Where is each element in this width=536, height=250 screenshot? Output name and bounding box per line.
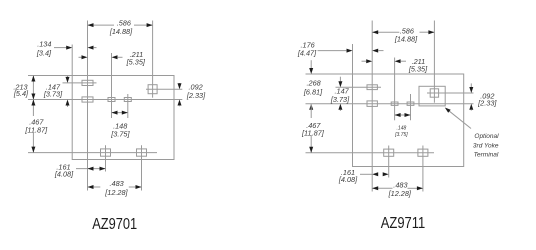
optional 3rd yoke terminal box (419, 86, 445, 106)
pads A-B vertical centerline / extension line (371, 21, 373, 192)
body left edge extension line (right) (352, 44, 354, 74)
svg-text:[5.4]: [5.4] (13, 89, 29, 98)
pad C vertical centerline (394, 58, 396, 121)
pad G vertical centerline (422, 146, 424, 192)
dimension .586 [14.88] (right) (372, 26, 434, 43)
dimension .148 [3.75] (right, small) (394, 113, 410, 138)
svg-text:.134: .134 (37, 39, 51, 48)
pad row B horizontal centerline (306, 103, 474, 105)
dimension .211 [5.35] (right) (362, 57, 429, 74)
svg-text:[2.33]: [2.33] (477, 99, 497, 108)
svg-text:[4.47]: [4.47] (297, 49, 317, 58)
pad G (418, 149, 428, 156)
pad 4 (124, 98, 131, 102)
svg-text:[5.35]: [5.35] (126, 58, 146, 67)
pad 5 horizontal centerline (146, 88, 182, 90)
relay body outline AZ9711 (353, 74, 464, 167)
dimension .161 [4.08] (54, 163, 106, 179)
body top edge extension line (28, 75, 72, 77)
dimension .467 [11.87] (24, 100, 48, 153)
pad 6 (101, 149, 111, 156)
svg-text:.483: .483 (109, 179, 123, 188)
pad 7 (137, 149, 147, 156)
pad D (407, 102, 414, 105)
svg-text:[14.88]: [14.88] (394, 34, 418, 43)
dimension .134 [3.4] (36, 39, 97, 57)
relay body outline AZ9701 (72, 76, 174, 160)
dimension .092 [2.33] (178, 83, 207, 107)
svg-text:Optional: Optional (474, 133, 499, 140)
svg-text:[6.81]: [6.81] (303, 88, 323, 97)
svg-text:.268: .268 (306, 78, 321, 87)
pad 1 horizontal centerline (63, 82, 97, 84)
svg-text:[14.88]: [14.88] (109, 27, 133, 36)
svg-text:.148: .148 (397, 126, 407, 132)
pad F vertical centerline (388, 146, 390, 178)
svg-text:AZ9711: AZ9711 (381, 215, 426, 232)
body left edge extension line (71, 45, 73, 76)
pad 3 vertical centerline (111, 53, 113, 118)
svg-text:[3.73]: [3.73] (43, 90, 63, 99)
pad D vertical centerline (410, 94, 412, 120)
pad A horizontal centerline (336, 86, 382, 88)
pad 1 slot (82, 80, 93, 85)
dimension .161 [4.08] (right) (338, 168, 389, 184)
pads F-G row horizontal centerline (306, 152, 435, 154)
dimension .148 [3.75] (110, 111, 130, 139)
pad A slot (367, 85, 377, 90)
dimension .211 [5.35] (79, 50, 146, 66)
pad F (384, 149, 394, 156)
caption AZ9701 (92, 216, 137, 233)
pad E horizontal centerline (427, 92, 474, 94)
svg-text:[3.73]: [3.73] (330, 95, 350, 104)
svg-text:3rd Yoke: 3rd Yoke (473, 143, 499, 150)
pad 5 square hole (148, 85, 157, 94)
svg-text:[4.08]: [4.08] (54, 170, 74, 179)
body top edge extension line (right) (306, 73, 353, 75)
dimension .586 [14.88] (88, 18, 153, 36)
pad row 2 horizontal centerline (28, 99, 182, 101)
pad 2 slot (82, 97, 93, 102)
svg-text:[12.28]: [12.28] (104, 188, 128, 197)
dimension .147 [3.73] (right) (330, 77, 350, 111)
svg-text:Terminal: Terminal (474, 151, 499, 158)
svg-text:[3.75]: [3.75] (110, 130, 130, 139)
dimension .092 [2.33] (right) (469, 83, 497, 110)
caption AZ9711 (381, 215, 426, 232)
pad 7 vertical centerline (141, 145, 143, 190)
leader line to optional 3rd yoke terminal (445, 108, 471, 129)
svg-text:[5.35]: [5.35] (408, 65, 428, 74)
note optional 3rd yoke terminal (473, 133, 499, 158)
pads 6-7 row horizontal centerline (28, 152, 157, 154)
svg-text:[11.87]: [11.87] (24, 126, 48, 135)
pad B slot (367, 101, 377, 107)
svg-text:[4.08]: [4.08] (338, 175, 358, 184)
svg-text:[12.28]: [12.28] (388, 189, 412, 198)
dimension .147 [3.73] (43, 76, 70, 107)
svg-text:AZ9701: AZ9701 (92, 216, 137, 233)
dimension .483 [12.28] (88, 179, 142, 197)
pad E vertical centerline / extension line (433, 21, 435, 103)
pads 1-2 vertical centerline / extension line (87, 21, 89, 191)
dimension .268 [6.81] (303, 60, 323, 109)
svg-text:[3.4]: [3.4] (36, 48, 52, 57)
pad 6 vertical centerline (105, 145, 107, 171)
dimension .176 [4.47] (297, 41, 384, 58)
svg-text:[2.33]: [2.33] (186, 91, 206, 100)
dimension .213 [5.4] (13, 76, 36, 100)
pad 4 vertical centerline (127, 94, 129, 118)
dimension .483 [12.28] (right) (372, 181, 423, 198)
pad C (391, 102, 398, 105)
dimension .467 [11.87] (right) (301, 104, 325, 153)
svg-text:[3.75]: [3.75] (394, 132, 408, 138)
pad 3 (108, 98, 115, 102)
svg-text:[11.87]: [11.87] (301, 129, 325, 138)
pad 5 vertical centerline / extension line (152, 21, 154, 98)
pad E square hole (430, 89, 438, 97)
